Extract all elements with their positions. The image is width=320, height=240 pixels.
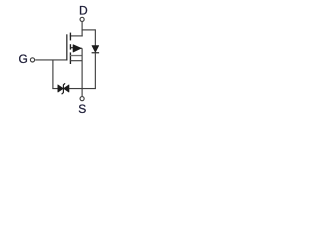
wire: diode branch vertical upper [94, 29, 96, 45]
channel top bar [70, 33, 71, 41]
ESD zener Z1 left (anode left, points right) [58, 85, 63, 92]
wire: source top tap [70, 55, 82, 57]
wire: diode return to source rail [82, 88, 96, 90]
svg-text:G: G [19, 52, 28, 66]
terminal G [30, 58, 34, 62]
body arrow of Q1 (points right) [73, 45, 81, 52]
body arrow stub [71, 47, 74, 49]
wire: zener rail right segment [69, 88, 82, 90]
gate bar of Q1 [66, 34, 67, 60]
channel bottom bar [70, 52, 71, 64]
channel middle bar [70, 44, 71, 49]
wire: diode branch vertical lower [94, 53, 96, 88]
body diode D1 (anode top, cathode bottom) [92, 46, 99, 53]
wire: G rail [35, 59, 67, 61]
wire: zener rail left segment [52, 88, 58, 90]
background [0, 0, 135, 129]
svg-text:D: D [79, 4, 88, 18]
terminal S [80, 97, 84, 101]
wire: zener branch from gate rail down [52, 60, 54, 89]
ESD zener Z2 right (anode right, points left) [64, 85, 69, 92]
wire: source vertical (arrow tip to S terminal) [81, 48, 83, 96]
body diode cathode bar [92, 52, 100, 53]
wire: source bottom tap [70, 60, 82, 62]
wire: drain horizontal into channel [70, 35, 83, 37]
terminal D [80, 17, 84, 21]
wire: arrow tip to source vertical [80, 47, 82, 49]
zener center bar with bent ends [62, 83, 66, 94]
wire: D stub down [81, 22, 83, 36]
svg-text:S: S [78, 102, 86, 116]
wire: branch to body diode (top) [82, 29, 96, 31]
